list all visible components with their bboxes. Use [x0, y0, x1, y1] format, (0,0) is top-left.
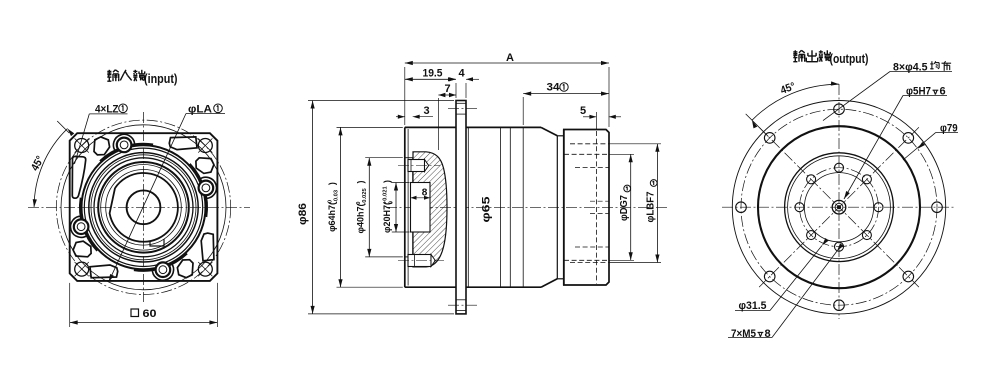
- 45 deg dimension: [752, 84, 839, 120]
- svg-text:A: A: [506, 52, 514, 64]
- right view: output end: [722, 50, 958, 340]
- bolt circle phi31.5: [800, 168, 879, 247]
- svg-text:φ86: φ86: [297, 203, 309, 225]
- svg-text:19.5: 19.5: [423, 68, 443, 80]
- cam plate bottom tab: [150, 239, 164, 246]
- dim 19.5: [455, 83, 457, 98]
- pockets (8 cutouts): [94, 137, 110, 155]
- dim 34: [522, 97, 524, 125]
- dim 5: [595, 112, 597, 129]
- inner circle: [804, 173, 873, 242]
- input spigot phi64: [404, 127, 406, 287]
- svg-text:8: 8: [765, 328, 771, 340]
- title output end: [793, 51, 797, 53]
- dim 3: [398, 115, 405, 119]
- dim phi LBF7: [609, 143, 661, 145]
- bolt circle dash-dot: [56, 120, 230, 294]
- dimension square 60: [69, 283, 71, 327]
- mounting flange plate: [456, 101, 466, 314]
- square flange outline: [70, 133, 218, 281]
- flange corner hole top: [456, 102, 466, 104]
- concentric housing rings: [82, 145, 206, 269]
- bolt circle phi79: [741, 109, 937, 305]
- dim 8: [411, 197, 431, 199]
- svg-text:34: 34: [547, 82, 561, 94]
- body circle phi65: [758, 126, 920, 288]
- svg-text:φ40h7(: φ40h7(: [356, 204, 366, 234]
- svg-text:5: 5: [580, 105, 586, 117]
- svg-text:8: 8: [422, 188, 428, 199]
- left view: input end flange: [28, 70, 250, 327]
- svg-text:φ20H7(: φ20H7(: [382, 202, 392, 233]
- center hole detail: [832, 200, 846, 214]
- 8 x phi4.5 holes: [932, 202, 943, 213]
- svg-text:3: 3: [423, 105, 429, 117]
- recess opening phi40: [405, 157, 413, 159]
- dim phi86: [308, 100, 454, 102]
- svg-text:): ): [327, 182, 337, 185]
- svg-text:φ64h7(: φ64h7(: [327, 202, 337, 232]
- left edge wedge pocket: [72, 156, 85, 198]
- dim 7: [437, 98, 439, 150]
- dim A: [404, 67, 406, 125]
- title input end: [107, 70, 111, 72]
- lug bosses with holes: [117, 138, 132, 153]
- svg-text:(output): (output): [830, 51, 869, 66]
- taper step: [541, 127, 557, 135]
- centerlines: [722, 206, 956, 208]
- hidden lines output: [595, 131, 597, 284]
- dim phi20H7: [392, 182, 410, 184]
- flange corner hole bottom: [456, 299, 466, 301]
- dim phi DG7: [609, 153, 634, 155]
- svg-text:-0.03: -0.03: [334, 189, 340, 203]
- flange circle phi86: [732, 101, 945, 314]
- retaining ring wings: [100, 144, 153, 161]
- dim 4: [465, 83, 467, 98]
- svg-text:0: 0: [389, 201, 395, 204]
- clamp screw top: [408, 160, 425, 172]
- centerline: [386, 206, 668, 208]
- svg-text:(input): (input): [144, 71, 178, 86]
- boss outer lobes: [113, 134, 134, 151]
- corner holes 4xLZ with cross marks: [75, 139, 89, 153]
- cam plate polygon: [110, 173, 178, 242]
- output housing: [564, 130, 609, 286]
- bore phi20 box: [411, 183, 431, 233]
- middle view: section: [297, 52, 668, 314]
- svg-text:7: 7: [444, 83, 450, 95]
- svg-text:φLBF7: φLBF7: [646, 191, 657, 222]
- diagonal centerlines: [759, 127, 919, 287]
- clamp screw bottom: [408, 255, 431, 267]
- centerline horizontal: [28, 206, 250, 208]
- svg-text:φDG7: φDG7: [619, 195, 630, 221]
- label phi LA leader: [109, 114, 186, 283]
- svg-text:60: 60: [143, 308, 157, 320]
- svg-text:4: 4: [458, 68, 465, 80]
- output hub double ring: [785, 153, 894, 262]
- svg-text:φLA: φLA: [188, 104, 212, 116]
- svg-text:φ65: φ65: [481, 197, 493, 223]
- svg-text:-0.025: -0.025: [362, 187, 368, 204]
- 45 deg dimension left: [34, 129, 67, 208]
- svg-text:): ): [382, 180, 392, 183]
- center bore: [127, 190, 161, 224]
- label 4xLZ leader: [75, 114, 90, 164]
- ring r38: [106, 170, 182, 246]
- circle phi LA: [61, 125, 226, 290]
- svg-text:4×LZ: 4×LZ: [95, 104, 119, 116]
- gearbox body phi65: [466, 126, 541, 128]
- dim phi64h7: [337, 126, 403, 128]
- centerline vertical: [143, 112, 145, 302]
- 8 tapped holes M5: [874, 203, 883, 212]
- svg-text:7×M5: 7×M5: [731, 328, 756, 340]
- svg-text:): ): [356, 181, 366, 184]
- dim phi40h7: [365, 157, 403, 159]
